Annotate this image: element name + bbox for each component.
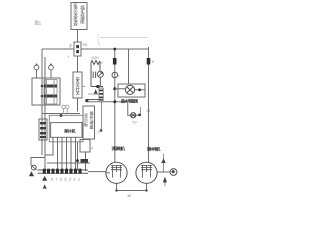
- node junction: [96, 85, 99, 88]
- svg-text:板: 板: [84, 121, 88, 127]
- program display box: [83, 106, 95, 139]
- LED indicator: [93, 71, 103, 86]
- svg-text:进水电磁阀: 进水电磁阀: [121, 97, 138, 103]
- svg-text:关: 关: [75, 90, 80, 97]
- dewater motor right: [136, 162, 157, 183]
- svg-text:6: 6: [60, 178, 62, 182]
- svg-text:2: 2: [74, 178, 76, 182]
- node dot a: [113, 87, 116, 90]
- capacitor C1 on center rail: [113, 58, 117, 65]
- wire under triangle: [91, 86, 103, 88]
- wire left rail: [41, 49, 43, 155]
- zener hatched: [99, 88, 103, 101]
- ground symbol: [43, 184, 47, 188]
- wire relay rails: [42, 105, 45, 158]
- node cap junction: [85, 99, 88, 102]
- svg-text:1: 1: [78, 178, 80, 182]
- wire top bus right: [81, 48, 149, 50]
- svg-text:7: 7: [56, 178, 58, 182]
- wire fuse stem upper: [77, 30, 79, 43]
- svg-text:F: F: [70, 44, 73, 49]
- wire valve feed: [87, 101, 128, 103]
- crystal pair: [62, 105, 69, 113]
- plug contact right: [49, 64, 54, 79]
- resistor R: [91, 61, 100, 87]
- node dot bus: [113, 48, 116, 51]
- neon lamp bottom left: [29, 165, 37, 176]
- wire cap link: [87, 99, 104, 101]
- svg-text:排水电机: 排水电机: [147, 146, 161, 152]
- relay contact blob: [81, 159, 89, 164]
- svg-text:盘: 盘: [90, 124, 94, 130]
- drain valve connector: [157, 154, 177, 186]
- wire ghost bleed: [98, 34, 148, 46]
- node relay tap: [76, 159, 79, 162]
- svg-text:源: 源: [73, 21, 78, 28]
- plug contact left: [34, 64, 39, 79]
- svg-text:YV: YV: [132, 121, 137, 125]
- wire valve branch: [128, 49, 130, 84]
- water valve: [128, 102, 141, 125]
- varistor circle on center rail: [112, 72, 118, 78]
- svg-text:~220: ~220: [90, 56, 99, 60]
- heater resistor box: [68, 55, 85, 98]
- wire controller top: [42, 113, 80, 115]
- pin number labels: [43, 178, 81, 182]
- terminal strip bus: [38, 169, 107, 174]
- wire led underline: [88, 93, 100, 95]
- wire right rail: [148, 47, 150, 163]
- svg-text:f: f: [68, 55, 69, 59]
- svg-text:3: 3: [69, 178, 71, 182]
- svg-text:8: 8: [51, 178, 53, 182]
- svg-text:t: t: [119, 74, 120, 78]
- diode arrow mid: [42, 176, 47, 181]
- wire heater stem lower: [77, 98, 79, 112]
- wash motor box: [115, 84, 145, 97]
- node osc blob: [100, 129, 103, 132]
- svg-text:R: R: [100, 61, 103, 65]
- wire driver stem: [85, 152, 87, 171]
- svg-text:5: 5: [65, 178, 67, 182]
- wire motor bottoms: [117, 183, 147, 190]
- svg-text:d: d: [91, 146, 93, 150]
- svg-text:XS: XS: [83, 43, 88, 47]
- svg-text:JB: JB: [146, 109, 151, 113]
- node blob under wire: [60, 114, 63, 117]
- fuse FU box: [70, 42, 99, 60]
- controller box outer: [49, 115, 83, 142]
- wire osc drop: [101, 102, 103, 130]
- svg-text:洗涤电机: 洗涤电机: [112, 145, 126, 151]
- node dot b: [113, 100, 116, 103]
- transformer box: [32, 78, 60, 105]
- driver box: [80, 140, 93, 153]
- diode triangle: [94, 89, 99, 94]
- wash motor left: [106, 162, 127, 183]
- wire left rail second: [31, 57, 45, 165]
- relay coil hatched: [39, 119, 47, 140]
- wire center rail: [114, 49, 116, 162]
- capacitor C2 on right rail: [147, 58, 151, 65]
- svg-text:座: 座: [80, 18, 85, 25]
- controller pins: [45, 137, 90, 170]
- wire fuse stem lower: [77, 56, 79, 72]
- wire top bus left: [42, 48, 74, 50]
- power plug label box: [71, 3, 87, 30]
- svg-text:单片机: 单片机: [64, 127, 76, 134]
- svg-text:M: M: [128, 193, 131, 198]
